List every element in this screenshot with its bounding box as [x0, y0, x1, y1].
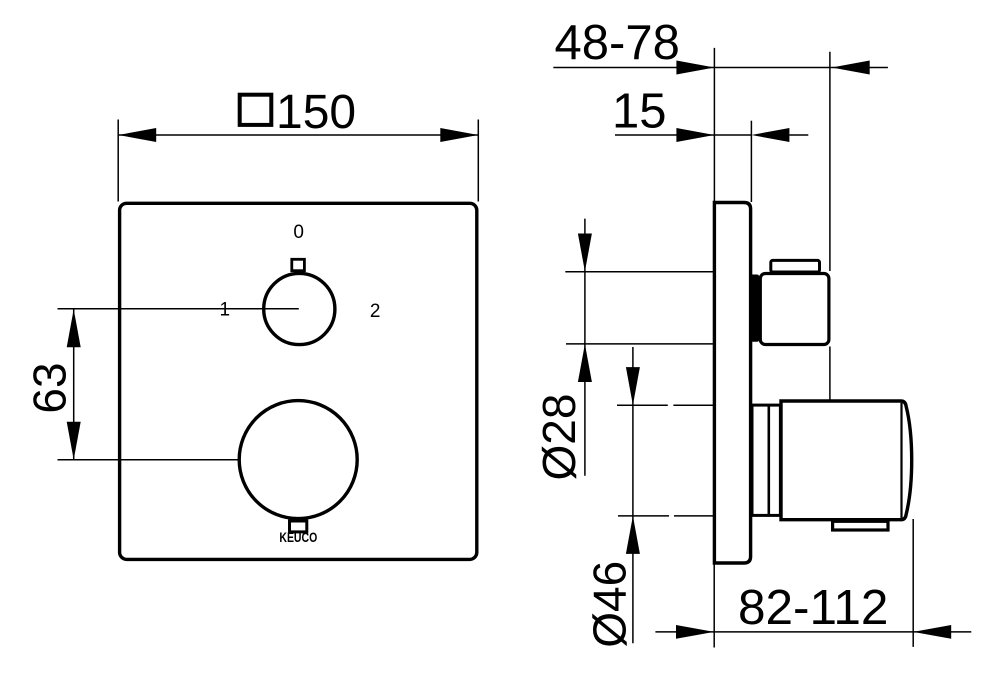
dim Ø28 arrow down	[578, 234, 592, 272]
dim 150 line	[118, 134, 478, 136]
dim 63 arrow up	[67, 309, 81, 347]
svg-text:63: 63	[24, 362, 76, 413]
svg-text:150: 150	[276, 86, 356, 139]
big knob notch	[290, 521, 307, 532]
dim 15 arrow left-pointing	[751, 128, 789, 142]
dim Ø28 extension bottom	[566, 343, 751, 345]
front plate	[120, 203, 477, 559]
dim Ø28 arrow up	[578, 344, 592, 382]
dim Ø28 extension top	[565, 271, 751, 273]
svg-text:Ø46: Ø46	[584, 561, 636, 648]
small knob body	[760, 274, 829, 345]
big knob body	[781, 401, 912, 520]
dim 15 line	[615, 134, 751, 136]
dim 82-112 arrow right-pointing	[676, 625, 714, 639]
dim 82-112 line	[655, 631, 971, 633]
ext line wall (x=714) above plate	[713, 48, 715, 202]
dim Ø28 line	[584, 219, 586, 476]
dim 150 arrow left	[118, 128, 156, 142]
ext line plate face (x=751.4)	[750, 121, 752, 202]
line into small knob center	[230, 308, 299, 310]
dim 150 extension line left	[117, 120, 119, 202]
dim 63 line	[73, 309, 75, 460]
dim Ø46 arrow up	[626, 516, 640, 554]
center line big knob	[58, 459, 299, 461]
dim 15 arrow right-pointing	[676, 128, 714, 142]
small knob lip	[771, 260, 820, 272]
big knob bottom notch	[833, 521, 888, 530]
small knob notch	[292, 259, 305, 270]
center line small knob	[58, 308, 299, 310]
ext line knob face lower	[829, 347, 831, 400]
small knob sleeve (black)	[750, 275, 759, 342]
ext line knob face (x=829.9) upper	[829, 52, 831, 271]
dim 48-78 arrow left-pointing	[832, 61, 870, 75]
big knob ring inner line	[767, 405, 770, 515]
dim Ø46 extension bottom	[618, 515, 669, 517]
dim Ø46 arrow down	[626, 367, 640, 405]
ext line big knob max (x=913.2)	[912, 519, 914, 647]
dim 63 arrow down	[67, 422, 81, 460]
svg-text:1: 1	[220, 299, 231, 320]
svg-text:0: 0	[293, 222, 304, 243]
side plate	[714, 203, 750, 564]
big knob circle	[239, 401, 357, 519]
dim 150 arrow right	[440, 128, 478, 142]
svg-text:48-78: 48-78	[555, 16, 680, 70]
dim Ø46 extension top	[617, 404, 668, 406]
dim 82-112 arrow left-pointing	[913, 625, 951, 639]
ext line wall below plate	[713, 563, 715, 648]
big knob face line	[900, 403, 902, 518]
square symbol	[240, 95, 272, 125]
small knob circle	[264, 273, 335, 344]
big knob ring	[752, 405, 780, 515]
svg-text:2: 2	[370, 301, 381, 322]
svg-text:Ø28: Ø28	[533, 394, 585, 481]
dim 150 extension line right	[477, 120, 479, 202]
svg-text:15: 15	[612, 84, 667, 138]
dim 48-78 arrow right-pointing	[676, 61, 714, 75]
dim Ø46 line	[632, 347, 634, 643]
svg-text:KEUCO: KEUCO	[279, 530, 317, 546]
svg-text:82-112: 82-112	[738, 580, 888, 635]
dim 48-78 line	[553, 67, 714, 69]
